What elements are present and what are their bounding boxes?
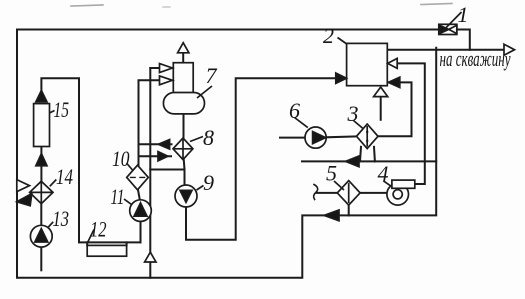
svg-text:13: 13	[53, 206, 70, 231]
svg-text:7: 7	[206, 63, 218, 88]
svg-text:15: 15	[54, 97, 70, 122]
svg-text:3: 3	[347, 101, 359, 126]
svg-text:14: 14	[56, 164, 73, 189]
svg-text:1: 1	[458, 2, 469, 27]
svg-text:10: 10	[112, 146, 130, 171]
svg-text:4: 4	[378, 161, 389, 186]
svg-text:5: 5	[326, 161, 337, 186]
svg-text:на скважину: на скважину	[440, 46, 511, 71]
svg-text:6: 6	[289, 98, 300, 123]
svg-text:8: 8	[203, 125, 214, 150]
svg-text:11: 11	[111, 184, 125, 209]
svg-text:9: 9	[203, 170, 214, 195]
svg-text:12: 12	[90, 217, 107, 242]
svg-text:2: 2	[323, 23, 334, 48]
